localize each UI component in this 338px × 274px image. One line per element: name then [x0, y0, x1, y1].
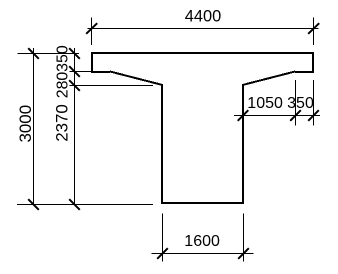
- tick 280/2370 boundary (left column): [69, 80, 80, 91]
- web bottom edge: [161, 202, 244, 204]
- svg-text:1050: 1050: [247, 95, 283, 112]
- dim 350/280/2370: dimension line: [74, 48, 76, 205]
- tick 1600 left: [157, 248, 168, 259]
- flange underside right: [295, 71, 314, 73]
- svg-text:4400: 4400: [185, 8, 221, 26]
- tick 1600 right: [238, 248, 249, 259]
- svg-text:3000: 3000: [16, 105, 35, 143]
- dim 1050/350: extension line at haunch break: [295, 80, 297, 126]
- svg-text:280: 280: [55, 72, 72, 99]
- right haunch slope: [243, 72, 296, 86]
- tick 1050 left (at web face): [238, 110, 249, 121]
- web right edge: [242, 84, 244, 203]
- dim 1600: right extension line: [243, 214, 245, 262]
- tick 350/280 boundary (left column): [69, 66, 80, 77]
- flange right edge: [312, 52, 314, 72]
- web left edge: [161, 84, 163, 203]
- svg-text:2370: 2370: [53, 104, 72, 142]
- thin dimension and extension lines: [17, 18, 320, 262]
- 45-degree tick marks: [28, 23, 319, 259]
- dim 4400: right extension line: [313, 18, 315, 46]
- tick 2370 bottom (left column): [69, 199, 80, 210]
- dim 3000: dimension line: [33, 48, 35, 205]
- left haunch slope: [110, 72, 163, 86]
- tick 350 top (left column): [69, 48, 80, 59]
- left extension line at flange top level: [18, 53, 80, 55]
- dim 1600: dimension line: [152, 253, 254, 255]
- dim 1050/350: dimension line: [234, 115, 320, 117]
- tick 350 right (at flange tip): [308, 110, 319, 121]
- dim 1050/350: extension line at flange tip: [313, 80, 315, 126]
- flange top edge: [91, 52, 314, 54]
- dim 1600: left extension line: [162, 214, 164, 262]
- tick 4400 right: [308, 23, 319, 34]
- tick 4400 left: [86, 23, 97, 34]
- flange underside left: [91, 71, 110, 73]
- beam outline (T-girder cross-section): [91, 52, 314, 203]
- dim 4400: dimension line: [87, 28, 318, 30]
- left extension line at web top level: [70, 85, 154, 87]
- svg-text:350: 350: [55, 45, 72, 72]
- svg-text:350: 350: [287, 95, 314, 112]
- flange left edge: [91, 52, 93, 72]
- tick 1050/350 boundary: [290, 110, 301, 121]
- svg-text:1600: 1600: [184, 233, 220, 250]
- left extension line at flange tip underside level: [70, 71, 92, 73]
- bottom extension line at beam soffit level: [17, 204, 153, 206]
- dim 4400: left extension line: [91, 18, 93, 46]
- tick 3000 bottom: [28, 199, 39, 210]
- tick 3000 top: [28, 48, 39, 59]
